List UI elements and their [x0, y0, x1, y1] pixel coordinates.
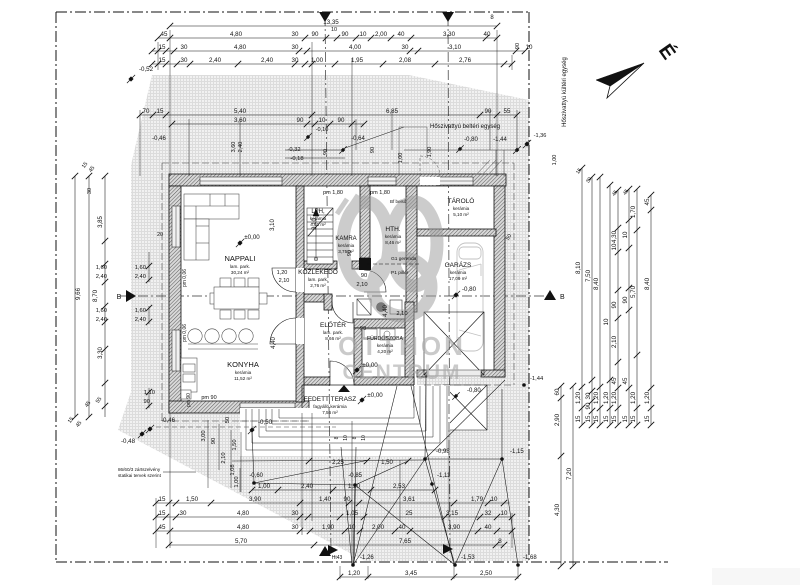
svg-text:15: 15 [159, 496, 166, 503]
car in garage [457, 243, 483, 351]
dim row bottom l [337, 570, 521, 580]
svg-text:-0,18: -0,18 [290, 156, 303, 162]
eloter south wall east part [354, 377, 414, 385]
svg-text:4,80: 4,80 [237, 510, 250, 517]
grade dim tick [364, 458, 370, 464]
svg-text:1,70: 1,70 [630, 205, 637, 218]
svg-text:-0,50: -0,50 [258, 419, 273, 426]
svg-text:90: 90 [342, 31, 349, 38]
eaves overhang dashed outline [162, 163, 514, 421]
svg-text:-1,26: -1,26 [360, 555, 374, 561]
svg-text:B: B [117, 294, 122, 301]
svg-text:10: 10 [526, 44, 533, 51]
dim col right 8.40b [644, 192, 654, 428]
dim col right 430mid [603, 182, 613, 428]
room label TÁROLÓ [448, 196, 475, 217]
svg-text:2,40: 2,40 [261, 57, 274, 64]
svg-text:-0,80: -0,80 [462, 286, 477, 293]
bathroom fixtures [357, 299, 402, 315]
svg-text:4,40: 4,40 [383, 305, 389, 317]
svg-text:30,24 m²: 30,24 m² [231, 270, 250, 275]
svg-text:9,66: 9,66 [75, 287, 82, 300]
svg-text:-0,46: -0,46 [152, 136, 166, 142]
section line C through steps redraw [448, 386, 450, 456]
svg-text:7,65: 7,65 [399, 538, 412, 545]
steel post note [118, 467, 196, 478]
door bathroom swing [332, 302, 353, 323]
staircase [307, 208, 333, 264]
svg-text:1,50: 1,50 [186, 496, 199, 503]
entrance step lines [285, 150, 345, 158]
grade pt a [423, 457, 427, 461]
svg-text:45: 45 [611, 377, 618, 384]
svg-text:90: 90 [312, 31, 319, 38]
svg-text:4,40: 4,40 [271, 337, 277, 349]
svg-text:90: 90 [338, 117, 345, 124]
dim row bottom k [166, 538, 507, 548]
svg-text:1,20: 1,20 [603, 391, 610, 404]
dim row top b [155, 31, 500, 41]
svg-text:fagyálló kerámia: fagyálló kerámia [313, 404, 347, 409]
svg-text:10: 10 [331, 27, 337, 33]
svg-text:Hőszivattyú beltéri egység: Hőszivattyú beltéri egység [430, 124, 500, 130]
svg-text:4,30: 4,30 [611, 230, 618, 243]
stippled yard ground area [118, 75, 529, 561]
svg-text:GARÁZS: GARÁZS [445, 260, 472, 269]
svg-text:15: 15 [644, 415, 651, 422]
svg-text:NAPPALI: NAPPALI [224, 254, 255, 263]
svg-text:-1,44: -1,44 [493, 137, 507, 143]
svg-text:15: 15 [159, 510, 166, 517]
svg-text:10: 10 [360, 31, 367, 38]
svg-text:3,60: 3,60 [234, 117, 247, 124]
dim row top c [149, 44, 533, 54]
svg-text:-1,68: -1,68 [523, 555, 537, 561]
svg-text:HTH.: HTH. [385, 226, 400, 233]
room label FÜRDŐSZOBA [367, 335, 404, 354]
bathroom west wall [354, 328, 362, 385]
svg-text:2,40: 2,40 [238, 142, 244, 153]
north arrow [596, 40, 680, 98]
kozlekedo elloter wall stub [324, 294, 332, 310]
svg-text:4,80: 4,80 [237, 524, 250, 531]
window nappali top [200, 177, 282, 185]
svg-text:15: 15 [622, 415, 629, 422]
svg-text:lam. park.: lam. park. [230, 264, 250, 269]
svg-text:-0,98: -0,98 [436, 449, 450, 455]
dim col right 4.30 [611, 187, 621, 428]
kozlekedo elloter divider wall [302, 294, 326, 302]
svg-text:90: 90 [485, 108, 492, 115]
svg-text:2,90: 2,90 [554, 413, 561, 426]
svg-text:70: 70 [143, 108, 150, 115]
svg-text:1,20: 1,20 [348, 570, 361, 577]
svg-text:KÖZLEKEDŐ: KÖZLEKEDŐ [298, 267, 338, 276]
svg-text:3,00: 3,00 [201, 430, 207, 441]
svg-text:90: 90 [515, 43, 521, 49]
svg-text:2,10: 2,10 [279, 278, 290, 284]
sofa living room [184, 194, 239, 260]
svg-text:2,00: 2,00 [375, 31, 388, 38]
interior wall nappali kozlekedo [296, 186, 304, 402]
garage bottom wall east stub [481, 370, 505, 377]
bottom section triangle c [443, 544, 453, 554]
svg-text:90: 90 [611, 301, 618, 308]
watermark logo otthon centrum [337, 195, 437, 316]
svg-text:TÁROLÓ: TÁROLÓ [448, 196, 475, 205]
svg-text:10: 10 [603, 318, 610, 325]
section line B horizontal [117, 290, 565, 302]
svg-text:Ht43: Ht43 [332, 555, 343, 561]
svg-text:6,85: 6,85 [386, 108, 399, 115]
svg-text:15: 15 [157, 108, 164, 115]
svg-text:3,90: 3,90 [249, 496, 262, 503]
svg-text:1,20: 1,20 [630, 391, 637, 404]
dim col 3.85 [102, 173, 108, 417]
dim row bottom g [249, 483, 438, 493]
svg-text:kerámia: kerámia [338, 243, 355, 248]
dim row bottom j [153, 524, 515, 534]
svg-text:11,52 m²: 11,52 m² [234, 376, 252, 381]
site boundary property line [56, 12, 668, 562]
svg-text:kerámia: kerámia [453, 206, 470, 211]
room label KAMRA [335, 236, 356, 254]
svg-text:pm 0,06: pm 0,06 [182, 269, 188, 287]
bathroom north wall [354, 319, 413, 328]
svg-text:15: 15 [159, 44, 166, 51]
svg-text:30: 30 [292, 44, 299, 51]
svg-text:15: 15 [575, 415, 582, 422]
svg-text:Hőszivattyú kültéri egység: Hőszivattyú kültéri egység [562, 57, 568, 127]
svg-text:2,08: 2,08 [399, 57, 412, 64]
svg-text:30: 30 [585, 392, 592, 399]
door hth swing [355, 270, 386, 292]
svg-text:1,60: 1,60 [96, 308, 107, 314]
marker -030 [304, 133, 311, 140]
room label LPH, [310, 209, 327, 227]
svg-text:kerámia: kerámia [235, 370, 252, 375]
dim row bottom i [153, 510, 515, 520]
window kitchen bottom [240, 403, 295, 412]
exterior wall top [169, 174, 506, 186]
garage door leaf [427, 370, 481, 376]
svg-text:1,90: 1,90 [427, 147, 433, 158]
svg-text:40: 40 [484, 31, 491, 38]
svg-text:1,95: 1,95 [351, 57, 364, 64]
section line A through steps redraw [329, 408, 330, 456]
room label HTH. [385, 226, 402, 245]
svg-text:10: 10 [319, 117, 326, 124]
svg-text:2,40: 2,40 [135, 274, 146, 280]
svg-text:90: 90 [211, 438, 217, 444]
svg-text:-0,60: -0,60 [249, 473, 263, 479]
svg-text:7,50: 7,50 [585, 269, 592, 282]
svg-text:2,76: 2,76 [459, 57, 472, 64]
scanner edge artifact bottom right [712, 568, 800, 585]
svg-text:ELŐTÉR: ELŐTÉR [320, 320, 346, 329]
svg-text:KAMRA: KAMRA [335, 236, 356, 242]
apron marker [452, 392, 459, 399]
svg-text:1,60: 1,60 [135, 308, 146, 314]
window hth top [368, 177, 396, 185]
door tarolo outside swing dashed [420, 156, 440, 185]
svg-text:-0,48: -0,48 [121, 438, 136, 445]
svg-text:1,20: 1,20 [644, 391, 651, 404]
dim col right 8.10 [575, 165, 585, 428]
svg-text:G1 gerenda: G1 gerenda [391, 256, 417, 262]
kamra south wall east [352, 261, 370, 269]
svg-text:-0,52: -0,52 [139, 66, 154, 73]
level garage marker [452, 291, 460, 299]
grade dim tick [306, 458, 312, 464]
svg-text:1,10: 1,10 [144, 390, 155, 396]
svg-text:30: 30 [292, 31, 299, 38]
svg-text:±0,00: ±0,00 [244, 234, 260, 241]
svg-text:-0,85: -0,85 [348, 473, 362, 479]
dining table with chairs [210, 278, 267, 319]
dim row bottom h [153, 496, 510, 506]
beam G1 dashed [367, 263, 420, 265]
grade pt g [351, 563, 355, 567]
svg-text:P1 pillér: P1 pillér [391, 270, 409, 276]
svg-text:2,25: 2,25 [332, 460, 344, 466]
svg-text:4,30: 4,30 [554, 503, 561, 516]
svg-text:7,56 m²: 7,56 m² [322, 410, 338, 415]
dim col right 5.70 [630, 186, 640, 428]
svg-text:-1,53: -1,53 [461, 555, 475, 561]
kitchen island counter with stools [188, 329, 258, 349]
svg-text:5,40: 5,40 [234, 108, 247, 115]
svg-text:3,10: 3,10 [270, 219, 276, 231]
svg-text:-1,44: -1,44 [530, 376, 544, 382]
svg-text:kerámia: kerámia [377, 343, 394, 348]
svg-text:30: 30 [180, 510, 187, 517]
left window dim chain [146, 252, 152, 409]
svg-text:FEDETT TERASZ: FEDETT TERASZ [304, 396, 357, 403]
svg-text:30: 30 [181, 44, 188, 51]
svg-text:15: 15 [585, 415, 592, 422]
level terasz marker [358, 396, 366, 404]
svg-text:8,46 m²: 8,46 m² [385, 240, 401, 245]
svg-text:8,40: 8,40 [593, 277, 600, 290]
exterior wall right garage [494, 186, 505, 377]
svg-text:13,35: 13,35 [323, 19, 339, 26]
svg-text:30: 30 [87, 188, 93, 194]
svg-text:1,79: 1,79 [471, 496, 484, 503]
heat pump indoor label [345, 124, 500, 148]
svg-text:3,90: 3,90 [448, 524, 461, 531]
roof slope marks over tarolo [476, 160, 502, 175]
dim col right 7.50 [585, 174, 595, 428]
svg-text:-0,10: -0,10 [316, 127, 329, 133]
dim col right 170 [622, 186, 632, 428]
kitchen bottom exterior wall [169, 401, 309, 413]
svg-text:1,00: 1,00 [398, 153, 404, 164]
svg-text:45: 45 [644, 198, 651, 205]
svg-text:-0,80: -0,80 [464, 137, 478, 143]
svg-text:10: 10 [611, 243, 618, 250]
svg-text:8: 8 [334, 436, 340, 439]
svg-text:2,10: 2,10 [356, 282, 367, 288]
svg-text:pm 1,80: pm 1,80 [323, 190, 343, 196]
svg-text:90: 90 [347, 250, 353, 256]
svg-text:90: 90 [370, 147, 376, 153]
svg-text:45: 45 [622, 377, 629, 384]
svg-text:45: 45 [159, 524, 166, 531]
svg-text:1,40: 1,40 [319, 496, 332, 503]
svg-text:15: 15 [159, 57, 166, 64]
svg-text:10: 10 [361, 435, 367, 441]
svg-text:55: 55 [504, 108, 511, 115]
svg-text:4,00: 4,00 [349, 44, 362, 51]
svg-text:4,80: 4,80 [234, 44, 247, 51]
svg-text:lam. park.: lam. park. [323, 330, 343, 335]
svg-text:2,40: 2,40 [96, 274, 107, 280]
svg-text:90: 90 [297, 117, 304, 124]
svg-text:pm 1,80: pm 1,80 [370, 190, 390, 196]
svg-text:8,40: 8,40 [644, 277, 651, 290]
svg-text:CENTRUM: CENTRUM [343, 361, 462, 384]
svg-text:kerámia: kerámia [385, 234, 402, 239]
svg-text:2,40: 2,40 [209, 57, 222, 64]
svg-text:1,05: 1,05 [346, 510, 359, 517]
dim row 3.60 [169, 117, 367, 127]
svg-text:10: 10 [622, 231, 629, 238]
level -052 marker [127, 75, 135, 83]
bathroom east wall [405, 302, 414, 385]
room label KONYHA [227, 360, 259, 381]
grade pt i [430, 482, 434, 486]
svg-text:FÜRDŐSZOBA: FÜRDŐSZOBA [367, 335, 404, 342]
svg-text:1,60: 1,60 [96, 265, 107, 271]
svg-text:2,40: 2,40 [135, 317, 146, 323]
marker -064 [339, 146, 346, 153]
svg-text:90: 90 [585, 402, 592, 409]
bathroom vanity fixtures [364, 329, 395, 340]
kitchen counter left [181, 358, 197, 399]
svg-text:1,20: 1,20 [575, 391, 582, 404]
grading diagonal lines [232, 375, 518, 565]
svg-text:15: 15 [603, 415, 610, 422]
svg-text:-0,64: -0,64 [351, 136, 365, 142]
white paving under steps [240, 385, 450, 456]
svg-text:8,70: 8,70 [92, 289, 99, 302]
svg-text:40: 40 [399, 524, 406, 531]
step witness lines [208, 420, 241, 492]
garage bottom wall west stub [417, 370, 427, 377]
svg-text:3,15: 3,15 [446, 510, 459, 517]
door kitchen swing [270, 318, 304, 344]
svg-text:8: 8 [352, 436, 358, 439]
witness lines top [140, 30, 517, 176]
svg-text:lam. park.: lam. park. [308, 277, 328, 282]
svg-text:15: 15 [630, 415, 637, 422]
svg-text:-1,36: -1,36 [534, 133, 547, 139]
svg-text:±0,00: ±0,00 [362, 362, 378, 369]
svg-text:50: 50 [225, 417, 231, 423]
svg-text:15: 15 [611, 415, 618, 422]
svg-text:15: 15 [593, 415, 600, 422]
svg-text:3,30: 3,30 [443, 31, 456, 38]
bottom section triangle a [328, 545, 338, 555]
svg-text:10: 10 [491, 496, 498, 503]
dim col right 7.20 [566, 383, 576, 569]
svg-text:30: 30 [402, 44, 409, 51]
svg-text:3,30: 3,30 [98, 347, 104, 359]
dim row top d [149, 57, 515, 67]
svg-text:86/60/3 zártszelvény: 86/60/3 zártszelvény [118, 467, 161, 472]
svg-text:30: 30 [181, 57, 188, 64]
svg-text:90: 90 [344, 496, 351, 503]
exterior wall left [169, 186, 181, 413]
svg-text:40: 40 [398, 31, 405, 38]
dim col 8.70 [86, 173, 92, 420]
svg-text:8,66 m²: 8,66 m² [325, 336, 341, 341]
level -046 left marker [146, 425, 154, 433]
svg-text:1,50: 1,50 [232, 439, 238, 450]
dim row 5.40 [137, 108, 520, 118]
svg-text:2,40: 2,40 [96, 317, 107, 323]
room label NAPPALI [224, 254, 255, 275]
taroo garage divider wall [417, 229, 496, 236]
level -048 marker [138, 430, 146, 438]
svg-text:45: 45 [161, 31, 168, 38]
svg-text:pm 0,06: pm 0,06 [182, 324, 188, 342]
svg-text:32: 32 [485, 510, 492, 517]
svg-text:10: 10 [349, 524, 356, 531]
section line A vertical [319, 12, 331, 556]
svg-text:pm 90: pm 90 [186, 393, 192, 407]
svg-text:3,10: 3,10 [449, 44, 462, 51]
eloter south wall west part [302, 377, 330, 385]
svg-text:1,20: 1,20 [348, 483, 361, 490]
terrace garden steps [246, 386, 447, 450]
svg-text:kerámia: kerámia [450, 270, 467, 275]
kamra south wall west [304, 261, 337, 269]
marker -144 [513, 146, 521, 154]
grade pt f [516, 563, 520, 567]
level -050 drive marker [248, 426, 256, 434]
svg-text:2,50: 2,50 [480, 570, 493, 577]
svg-text:8: 8 [498, 538, 502, 545]
fedett terasz slab [302, 385, 445, 421]
entry path lines [399, 127, 427, 176]
svg-text:4,80: 4,80 [230, 31, 243, 38]
svg-text:10: 10 [501, 510, 508, 517]
house footprint white fill [171, 176, 505, 430]
svg-text:-0,80: -0,80 [467, 388, 481, 394]
svg-text:±0,00: ±0,00 [367, 392, 383, 399]
svg-text:3,60: 3,60 [231, 142, 237, 153]
door nappali swing [272, 268, 304, 292]
svg-text:30: 30 [292, 510, 299, 517]
svg-text:KONYHA: KONYHA [227, 360, 259, 369]
room label GARÁZS [445, 260, 472, 281]
svg-text:8,10: 8,10 [575, 261, 582, 274]
driveway apron crossed [443, 385, 487, 430]
svg-text:3,45: 3,45 [405, 570, 418, 577]
entry door opening with swing arc [330, 361, 354, 385]
garage door crossed rectangle [424, 312, 484, 375]
svg-text:2,10: 2,10 [611, 335, 618, 348]
svg-text:2,40: 2,40 [301, 483, 314, 490]
svg-text:90: 90 [361, 273, 367, 279]
svg-text:pm 90: pm 90 [201, 395, 216, 401]
svg-text:Bf belső: Bf belső [390, 199, 407, 204]
svg-text:1,90: 1,90 [322, 524, 335, 531]
marker h [523, 140, 531, 148]
pillar P1 [359, 258, 371, 270]
